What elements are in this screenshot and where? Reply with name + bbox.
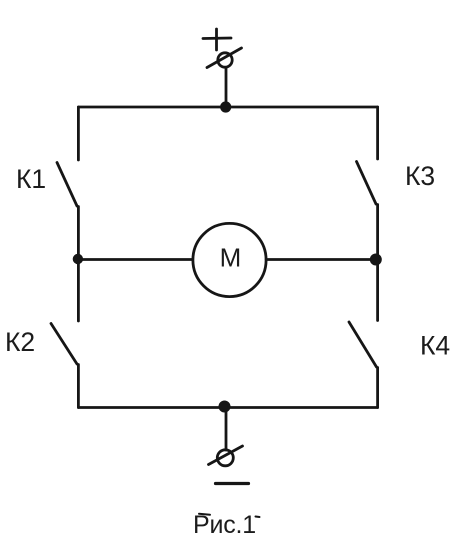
wire: motor to node B: [266, 258, 376, 261]
svg-text:К3: К3: [405, 161, 435, 191]
negative supply terminal (circle with slash): [209, 446, 243, 466]
wire: node A to switch K2: [77, 260, 80, 322]
wire: top bus: [78, 106, 377, 109]
svg-text:К1: К1: [16, 164, 46, 194]
wire: switch K4 to bottom bus: [376, 368, 379, 408]
svg-text:К4: К4: [420, 331, 450, 361]
switch K3 (blade): [357, 162, 377, 205]
svg-text:M: M: [220, 243, 242, 273]
wire: switch K1 to node A: [77, 207, 80, 260]
switch K2 (blade): [51, 324, 77, 365]
node B: right middle junction: [371, 255, 380, 264]
stray mark above Р of caption: [199, 514, 210, 515]
wire: switch K2 to bottom bus: [77, 365, 80, 408]
svg-text:К2: К2: [5, 327, 35, 357]
stray mark after 1 of caption: [256, 516, 260, 519]
motor M: [193, 223, 266, 296]
wire: right vertical, top bus to switch K3: [376, 107, 379, 159]
wire: left vertical, top bus to switch K1: [77, 107, 80, 160]
positive supply terminal (circle with slash): [207, 48, 242, 68]
wire: bottom bus to - terminal: [225, 408, 228, 451]
minus symbol (- supply marking): [216, 482, 249, 485]
switch K1 (blade): [57, 163, 77, 207]
wire: switch K3 to node B: [376, 205, 379, 321]
wire: + terminal to top bus: [225, 68, 228, 107]
wire: node A to motor: [78, 258, 192, 261]
node A: left middle junction: [74, 255, 82, 263]
wire: bottom bus: [78, 406, 377, 409]
node: bottom bus junction: [220, 402, 229, 411]
plus symbol (+ supply marking): [203, 29, 231, 50]
node: top bus junction: [222, 103, 230, 111]
switch K4 (blade): [349, 322, 377, 367]
